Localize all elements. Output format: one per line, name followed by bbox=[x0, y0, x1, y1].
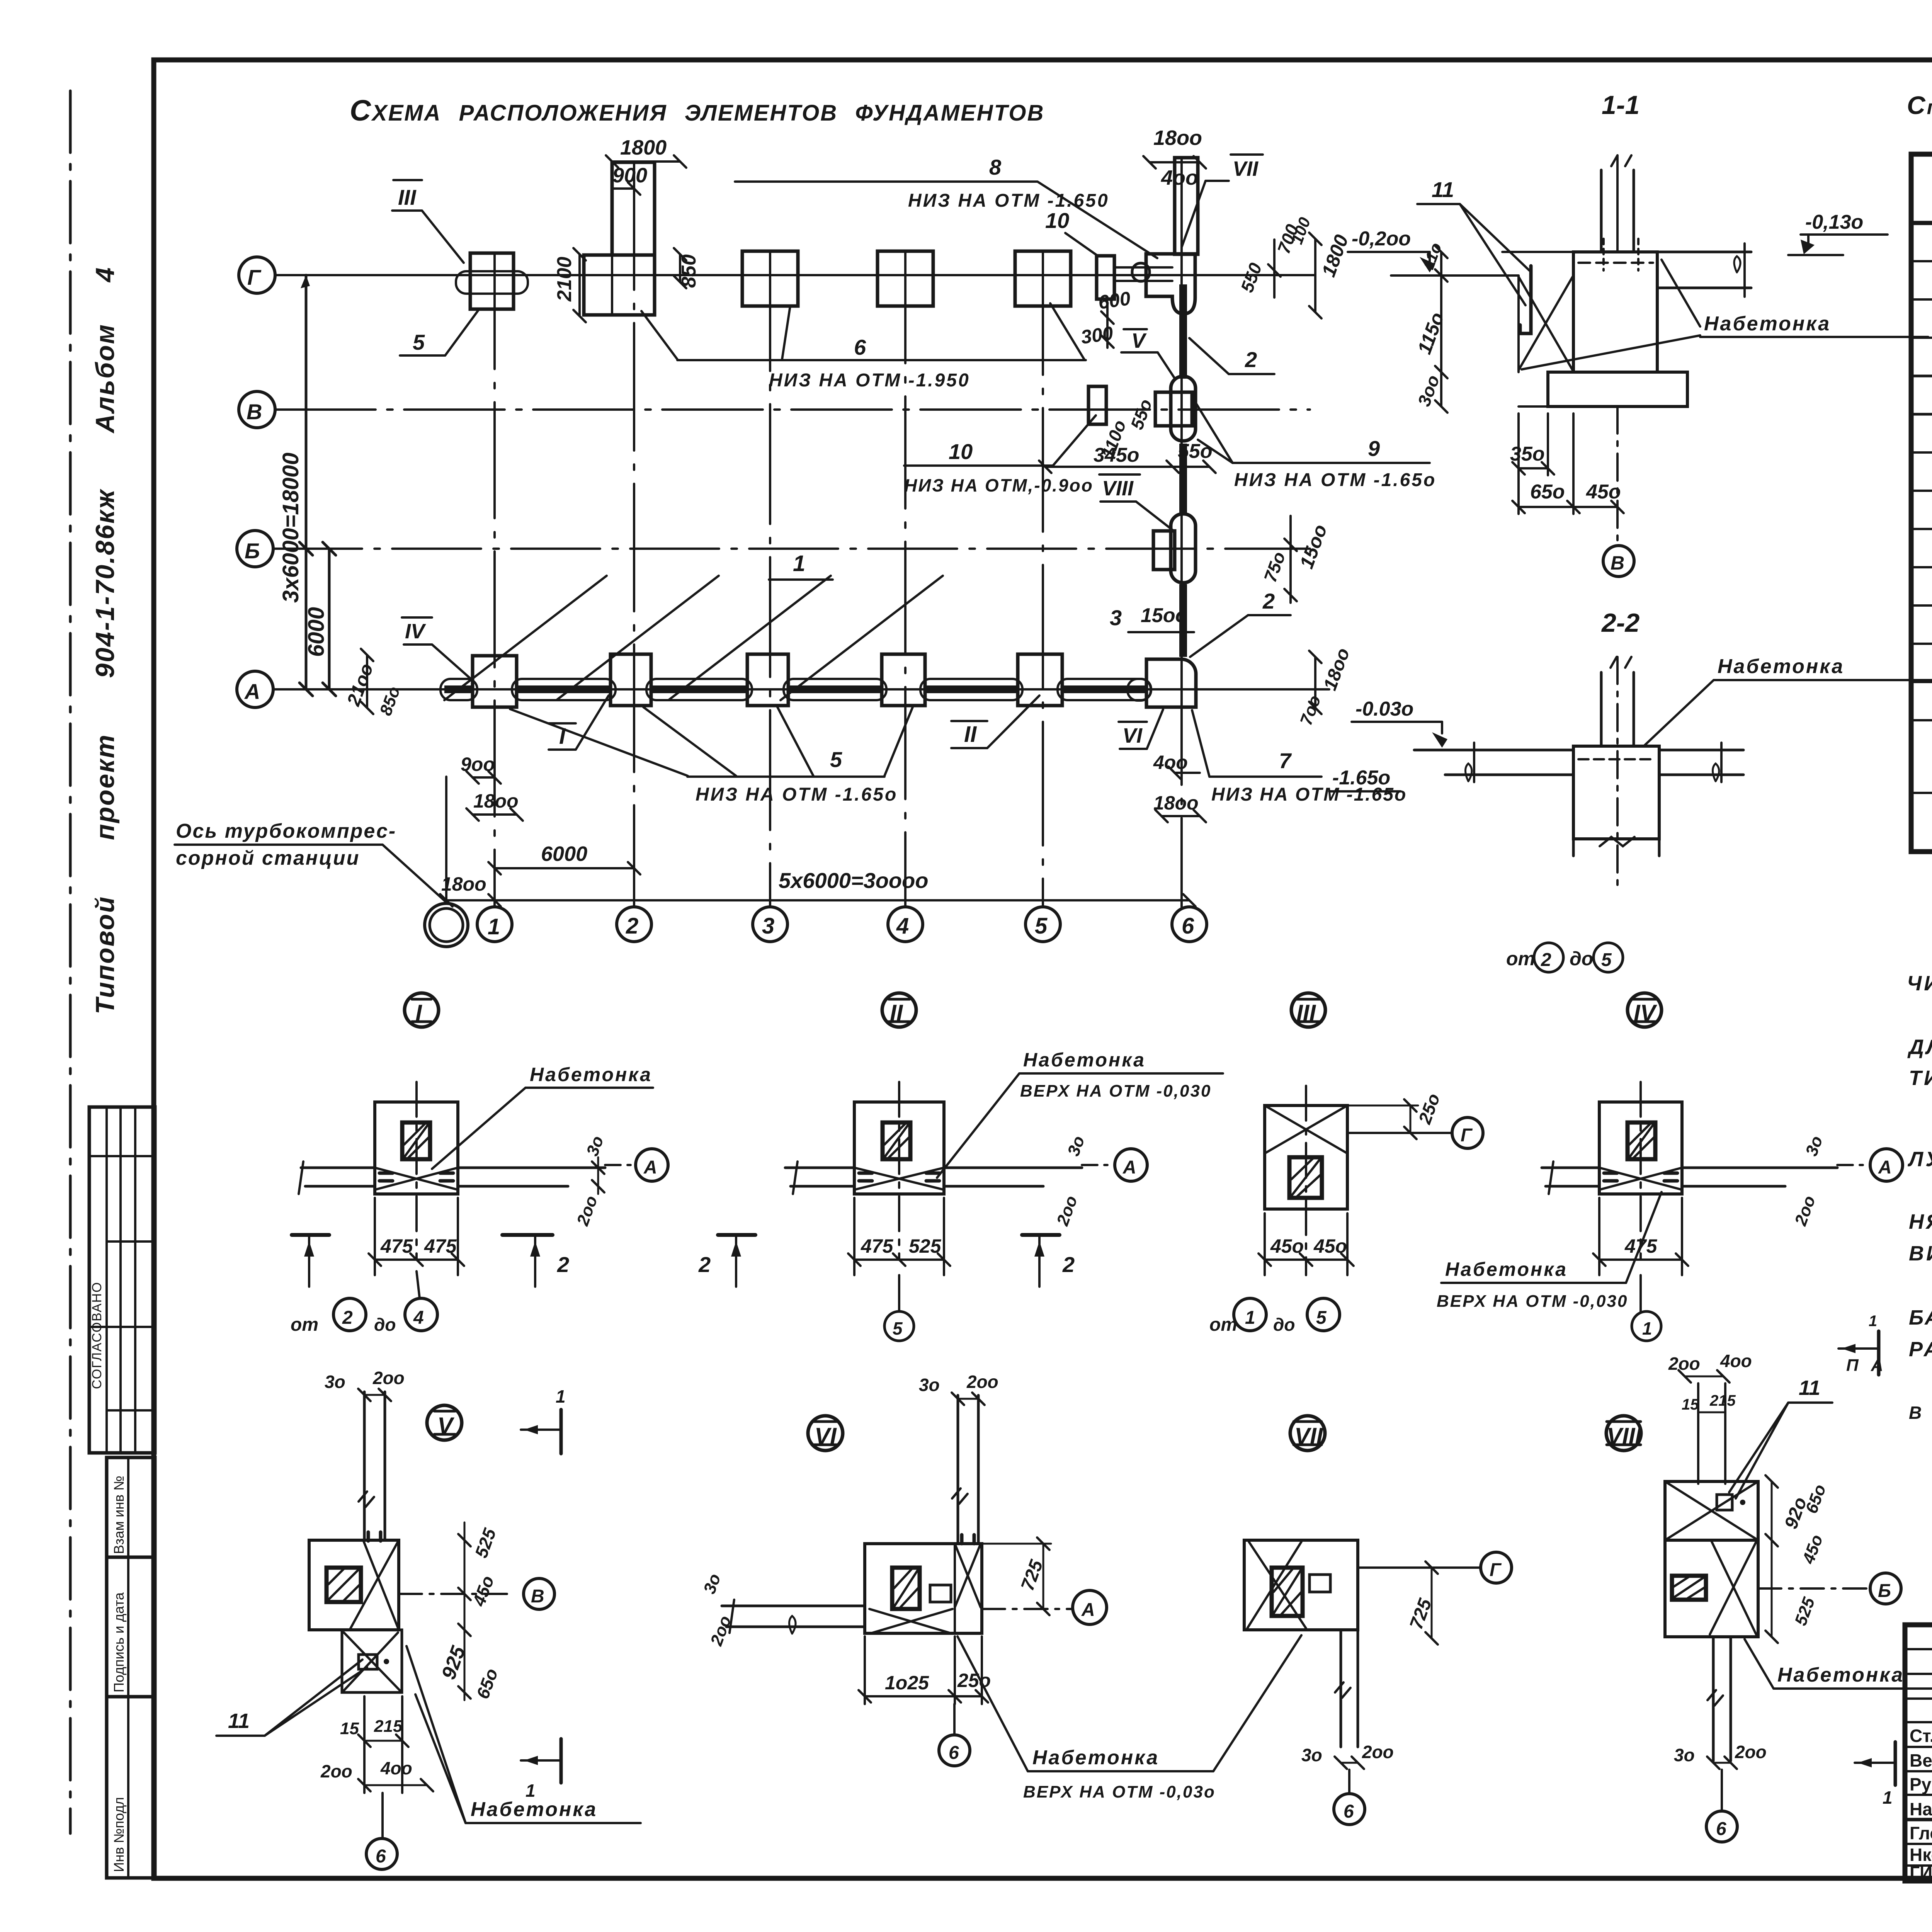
svg-text:НИЗ НА ОТМ -1.950: НИЗ НА ОТМ -1.950 bbox=[769, 370, 970, 391]
dim 6000 bbox=[495, 867, 634, 869]
soglasovano stamp box bbox=[89, 1107, 155, 1453]
detail VII axis Г bbox=[1358, 1566, 1481, 1569]
grid circle 2 bbox=[617, 907, 651, 942]
svg-text:ЧИСТОГО ПОЛА ПЕРВОГО ЭТАЖА МАШ: ЧИСТОГО ПОЛА ПЕРВОГО ЭТАЖА МАШИННОГО ЗАЛ… bbox=[1907, 972, 1932, 995]
svg-text:11: 11 bbox=[228, 1709, 250, 1733]
SECTION22 bbox=[1329, 608, 1932, 972]
svg-text:5: 5 bbox=[1601, 950, 1612, 970]
svg-text:2оо: 2оо bbox=[1053, 1193, 1081, 1228]
dim 2100 850 at A1 bbox=[366, 655, 368, 708]
center line below bbox=[1616, 406, 1619, 546]
grid circle 6 bbox=[1172, 907, 1207, 942]
detail VI square bbox=[865, 1544, 982, 1633]
svg-text:45о: 45о bbox=[1586, 481, 1621, 503]
detail VI dim 725 bbox=[1043, 1544, 1044, 1609]
column 2-2 bbox=[1600, 672, 1603, 746]
axis circle В bbox=[239, 391, 275, 428]
svg-text:6000: 6000 bbox=[304, 607, 329, 657]
svg-text:8: 8 bbox=[989, 155, 1002, 179]
sheet left edge line bbox=[69, 91, 72, 1833]
svg-text:65о: 65о bbox=[473, 1666, 502, 1701]
svg-text:900: 900 bbox=[612, 164, 647, 187]
detail II axis A bbox=[1082, 1164, 1115, 1166]
svg-text:ВЕРХ НА ОТМ -0,030: ВЕРХ НА ОТМ -0,030 bbox=[1020, 1082, 1211, 1100]
detail VI dim 1025 250 bbox=[865, 1695, 982, 1697]
svg-text:Взам инв №: Взам инв № bbox=[111, 1476, 127, 1554]
svg-text:2: 2 bbox=[698, 1252, 711, 1277]
svg-text:525: 525 bbox=[1791, 1595, 1818, 1628]
svg-text:НЯТЬ ПУТЕМ ВТРАМБОВАНИЯ В ГРУН: НЯТЬ ПУТЕМ ВТРАМБОВАНИЯ В ГРУНТ ЩЕБНЯ ИЛ… bbox=[1909, 1210, 1932, 1233]
svg-text:-1.65о: -1.65о bbox=[1332, 767, 1390, 789]
detail VIII section mark 1 bottom bbox=[1894, 1742, 1897, 1785]
axis line А bbox=[273, 688, 1329, 690]
foundation square A1 bbox=[473, 656, 517, 707]
svg-text:А: А bbox=[643, 1157, 657, 1178]
nabetonka X leaders crossing bbox=[1522, 335, 1700, 369]
detail III dim 450 450 bbox=[1265, 1259, 1347, 1261]
svg-text:П А: П А bbox=[1846, 1356, 1887, 1375]
detail V lower block bbox=[342, 1630, 402, 1692]
svg-text:3о: 3о bbox=[1301, 1745, 1322, 1765]
axis line Б dash-dot bbox=[273, 548, 1310, 550]
svg-text:45о: 45о bbox=[1313, 1235, 1347, 1257]
TITLEBLOCK bbox=[1905, 1625, 1932, 1914]
svg-text:75о: 75о bbox=[1260, 549, 1289, 585]
svg-text:10: 10 bbox=[949, 439, 973, 464]
detail VIII circle 6 bbox=[1721, 1770, 1723, 1811]
full row lines bbox=[1911, 375, 1932, 378]
svg-text:5: 5 bbox=[830, 747, 842, 772]
svg-text:3о: 3о bbox=[700, 1571, 724, 1596]
svg-text:2оо: 2оо bbox=[372, 1368, 405, 1388]
svg-text:18оо: 18оо bbox=[1320, 645, 1354, 693]
svg-text:6: 6 bbox=[854, 335, 866, 359]
dim 400 1800 below col6 bbox=[1175, 772, 1200, 774]
svg-text:ВЕРХ НА ОТМ -0,030: ВЕРХ НА ОТМ -0,030 bbox=[1437, 1292, 1628, 1311]
element VIII capsule at Б6 bbox=[1171, 514, 1196, 583]
svg-text:65о: 65о bbox=[1802, 1482, 1830, 1516]
svg-text:18оо: 18оо bbox=[1153, 792, 1199, 814]
svg-text:45о: 45о bbox=[1270, 1235, 1304, 1257]
svg-text:18оо: 18оо bbox=[1153, 126, 1202, 150]
foundation square G1 bbox=[470, 253, 514, 309]
svg-text:2оо: 2оо bbox=[1362, 1742, 1394, 1762]
label 6 niz -1.950 bbox=[677, 359, 1086, 361]
detail VIII circle bbox=[1606, 1416, 1641, 1451]
svg-text:НИЗ НА ОТМ,-0.9оо: НИЗ НА ОТМ,-0.9оо bbox=[904, 475, 1094, 495]
svg-text:15: 15 bbox=[1682, 1396, 1699, 1413]
svg-text:ВИЯ КРУПНОСТЬЮ 40-60ММ.: ВИЯ КРУПНОСТЬЮ 40-60ММ. bbox=[1909, 1242, 1932, 1265]
detail V dims 15 215 bbox=[364, 1740, 402, 1742]
svg-text:215: 215 bbox=[374, 1717, 403, 1736]
svg-text:до: до bbox=[1570, 948, 1593, 969]
svg-text:2: 2 bbox=[1541, 950, 1551, 970]
fan leaders pos1 bbox=[444, 576, 607, 700]
detail IV square bbox=[1599, 1102, 1682, 1194]
left dim line 6000 bbox=[328, 549, 331, 689]
svg-text:5х6000=3оооо: 5х6000=3оооо bbox=[779, 868, 929, 893]
svg-text:4оо: 4оо bbox=[1161, 166, 1198, 189]
PLAN bbox=[175, 94, 1436, 947]
svg-text:3о: 3о bbox=[583, 1133, 607, 1158]
svg-text:ГИП: ГИП bbox=[1910, 1862, 1932, 1883]
dim 2100 850 col2 square bbox=[578, 254, 581, 316]
svg-text:6: 6 bbox=[949, 1743, 959, 1763]
svg-text:2: 2 bbox=[1062, 1252, 1075, 1277]
svg-text:Спецификация к схеме распол: Спецификация к схеме расположения элемен… bbox=[1907, 91, 1932, 119]
dim 1800 col2 bbox=[612, 160, 680, 163]
SPECTABLE bbox=[1907, 91, 1932, 852]
LEFTMARGIN bbox=[89, 266, 155, 1878]
svg-text:2: 2 bbox=[557, 1252, 569, 1277]
svg-text:600: 600 bbox=[1097, 287, 1132, 313]
detail I axis A bbox=[605, 1164, 636, 1166]
column line 6 bbox=[1180, 160, 1183, 907]
svg-text:15: 15 bbox=[340, 1719, 359, 1738]
dim 900 col2 bbox=[612, 187, 634, 190]
column line 5 bbox=[1042, 251, 1044, 907]
svg-text:VII: VII bbox=[1233, 157, 1259, 180]
axis circle Г bbox=[239, 257, 275, 293]
column line 3 bbox=[769, 251, 771, 907]
svg-text:1800: 1800 bbox=[1318, 232, 1353, 280]
svg-text:2: 2 bbox=[1262, 589, 1275, 613]
detail V axis B bbox=[399, 1593, 508, 1595]
svg-text:сорной станции: сорной станции bbox=[176, 847, 360, 869]
svg-text:от: от bbox=[1506, 948, 1535, 969]
svg-text:6: 6 bbox=[376, 1846, 386, 1867]
svg-text:215: 215 bbox=[1709, 1392, 1736, 1409]
X cross left chamber bbox=[1519, 277, 1573, 370]
svg-text:А: А bbox=[1122, 1157, 1136, 1178]
svg-text:до: до bbox=[1273, 1315, 1295, 1335]
detail II dim 475 525 bbox=[854, 1259, 944, 1261]
detail VIII top dims bbox=[1685, 1376, 1723, 1378]
title block outer bbox=[1905, 1625, 1932, 1881]
svg-text:6: 6 bbox=[1344, 1801, 1354, 1822]
beam A4-A5 bbox=[920, 679, 1022, 700]
svg-text:2оо: 2оо bbox=[573, 1193, 601, 1228]
svg-text:Г: Г bbox=[1490, 1560, 1502, 1580]
detail V section mark 1 top bbox=[560, 1410, 563, 1454]
svg-text:ДЛЯ ФУНДАМЕНТОВ ДАНА В ПОЯСНИТ: ДЛЯ ФУНДАМЕНТОВ ДАНА В ПОЯСНИТЕЛЬНОЙ ЗАП… bbox=[1907, 1035, 1932, 1059]
podpis i data box bbox=[107, 1557, 155, 1697]
svg-text:4оо: 4оо bbox=[1720, 1351, 1752, 1371]
detail IV circle bbox=[1628, 993, 1662, 1027]
detail VI beams left bbox=[722, 1605, 865, 1607]
svg-text:1: 1 bbox=[1869, 1313, 1877, 1330]
svg-text:100: 100 bbox=[1287, 215, 1314, 247]
header bottom line bbox=[1911, 221, 1932, 225]
detail V circle 6 bbox=[381, 1793, 384, 1838]
detail V circle bbox=[427, 1405, 462, 1440]
svg-text:11: 11 bbox=[1799, 1376, 1820, 1400]
detail VII beam below bbox=[1340, 1630, 1342, 1747]
detail V beam above bbox=[363, 1392, 366, 1540]
svg-text:1: 1 bbox=[1642, 1318, 1652, 1338]
svg-text:18оо: 18оо bbox=[441, 873, 486, 895]
svg-text:475: 475 bbox=[424, 1235, 457, 1257]
detail I square bbox=[375, 1102, 458, 1194]
detail II circle bbox=[882, 993, 916, 1027]
foundation square G4 bbox=[878, 251, 933, 306]
svg-text:3: 3 bbox=[762, 913, 774, 939]
svg-text:VI: VI bbox=[1122, 724, 1143, 747]
left rows bbox=[1905, 1649, 1932, 1866]
detail V right dims bbox=[464, 1522, 466, 1700]
axis circle B below 1-1 bbox=[1603, 546, 1634, 577]
svg-text:7: 7 bbox=[1279, 748, 1292, 773]
svg-text:5: 5 bbox=[1316, 1308, 1327, 1328]
svg-text:3о: 3о bbox=[919, 1375, 940, 1395]
svg-text:6: 6 bbox=[1716, 1819, 1726, 1839]
beam A1-A2 bbox=[512, 679, 616, 700]
svg-text:Нконтр: Нконтр bbox=[1910, 1845, 1932, 1865]
svg-text:6: 6 bbox=[1182, 913, 1194, 939]
detail I beams bbox=[301, 1167, 375, 1169]
right dim stack at G bbox=[1273, 240, 1276, 298]
svg-text:2100: 2100 bbox=[553, 257, 576, 302]
svg-text:В: В bbox=[247, 400, 262, 424]
svg-text:2оо: 2оо bbox=[707, 1613, 735, 1648]
svg-text:7оо: 7оо bbox=[1296, 693, 1325, 728]
svg-text:НИЗ НА ОТМ -1.65о: НИЗ НА ОТМ -1.65о bbox=[696, 784, 898, 805]
svg-text:VIII: VIII bbox=[1102, 477, 1134, 500]
svg-text:525: 525 bbox=[909, 1235, 942, 1257]
svg-text:55о: 55о bbox=[1178, 440, 1213, 463]
floor and beams 2-2 bbox=[1414, 749, 1573, 752]
detail VI beam above bbox=[957, 1395, 959, 1544]
svg-text:1: 1 bbox=[488, 914, 500, 939]
axis circle А bbox=[237, 671, 273, 707]
foundation square A3 bbox=[747, 654, 788, 706]
svg-text:3о: 3о bbox=[1064, 1133, 1088, 1158]
detail III circle bbox=[1291, 993, 1325, 1027]
axis line В dash-dot bbox=[275, 408, 1310, 411]
svg-text:Г: Г bbox=[1461, 1125, 1473, 1146]
detail V dims 200 400 bbox=[364, 1784, 427, 1786]
svg-text:45о: 45о bbox=[1799, 1532, 1827, 1566]
svg-text:НИЗ НА ОТМ -1.65о: НИЗ НА ОТМ -1.65о bbox=[1234, 470, 1436, 490]
svg-text:1: 1 bbox=[556, 1386, 566, 1406]
svg-text:65о: 65о bbox=[1530, 481, 1565, 503]
right dims at A6 bbox=[1314, 657, 1316, 708]
svg-text:-0,13о: -0,13о bbox=[1805, 211, 1863, 233]
detail II section marks 2 bbox=[718, 1233, 755, 1237]
dim 3450 550 bbox=[1045, 466, 1173, 468]
svg-text:Набетонка: Набетонка bbox=[1718, 655, 1844, 678]
detail VIII beam below bbox=[1712, 1637, 1715, 1761]
left anchor bolt hook bbox=[1520, 266, 1531, 333]
grid circle 3 bbox=[753, 907, 787, 942]
svg-text:475: 475 bbox=[861, 1235, 894, 1257]
partial row lines col1 bbox=[1911, 261, 1932, 793]
detail I circle bbox=[405, 993, 439, 1027]
svg-text:55о: 55о bbox=[1127, 396, 1156, 432]
detail VIII main square bbox=[1665, 1540, 1758, 1637]
svg-text:9: 9 bbox=[1368, 436, 1380, 461]
svg-text:6000: 6000 bbox=[541, 842, 587, 866]
svg-text:3о: 3о bbox=[1674, 1745, 1695, 1765]
svg-text:475: 475 bbox=[380, 1235, 413, 1257]
svg-text:2оо: 2оо bbox=[1668, 1354, 1700, 1374]
detail VII bottom dims bbox=[1341, 1762, 1358, 1764]
beam stub left of A1 bbox=[440, 679, 477, 700]
detail VIII right dims bbox=[1771, 1481, 1773, 1637]
svg-text:5: 5 bbox=[413, 330, 425, 354]
svg-text:1о25: 1о25 bbox=[885, 1672, 929, 1694]
detail VI axis A bbox=[982, 1608, 1073, 1610]
detail VII square bbox=[1244, 1540, 1358, 1630]
svg-text:Начотд: Начотд bbox=[1910, 1799, 1932, 1819]
svg-text:25о: 25о bbox=[1414, 1091, 1444, 1127]
pos10 block on axis В bbox=[1088, 386, 1106, 424]
right beam 1-1 bbox=[1657, 251, 1751, 253]
column line 2 bbox=[633, 162, 635, 907]
corner element VII at G6 bbox=[1146, 254, 1195, 314]
footing 1-1 bbox=[1548, 372, 1687, 406]
detail II circle 5 bbox=[898, 1275, 900, 1311]
svg-text:А: А bbox=[244, 679, 260, 704]
svg-text:300: 300 bbox=[1080, 322, 1115, 348]
column line 4 bbox=[904, 251, 906, 907]
svg-text:А: А bbox=[1081, 1600, 1095, 1620]
svg-text:Подпись и дата: Подпись и дата bbox=[111, 1592, 127, 1692]
svg-text:Набетонка: Набетонка bbox=[530, 1064, 652, 1085]
svg-text:СХЕМА РАСПОЛОЖЕНИЯ ЭЛЕМЕНТОВ Ф: СХЕМА РАСПОЛОЖЕНИЯ ЭЛЕМЕНТОВ ФУНДАМЕНТОВ bbox=[350, 94, 1044, 127]
svg-text:850: 850 bbox=[678, 254, 700, 288]
label 8 niz -1.650 bbox=[735, 180, 1037, 183]
detail II square bbox=[854, 1102, 944, 1194]
svg-text:В: В bbox=[531, 1586, 544, 1607]
corner element VI at A6 bbox=[1146, 659, 1196, 707]
pos10 block on axis Г bbox=[1097, 256, 1114, 299]
foundation square A5 bbox=[1018, 654, 1062, 706]
svg-text:Инв №подл: Инв №подл bbox=[111, 1797, 127, 1872]
detail IV axis A bbox=[1837, 1164, 1870, 1166]
table outer border bbox=[1911, 154, 1932, 852]
svg-text:до: до bbox=[374, 1315, 396, 1335]
detail VIII upper square bbox=[1665, 1481, 1758, 1540]
detail VII circle 6 bbox=[1348, 1770, 1350, 1794]
axis circle Б bbox=[237, 531, 273, 567]
svg-text:Г: Г bbox=[247, 265, 262, 289]
svg-text:2оо: 2оо bbox=[1735, 1742, 1767, 1762]
svg-text:18оо: 18оо bbox=[473, 790, 519, 812]
role names bbox=[1910, 1726, 1932, 1883]
column line 1 bbox=[493, 253, 496, 907]
svg-text:Б: Б bbox=[1878, 1581, 1891, 1601]
foundation square A4 bbox=[882, 654, 925, 706]
element V capsule at B6 bbox=[1171, 376, 1196, 441]
foundation square G2 with pit bbox=[584, 255, 655, 315]
svg-text:550: 550 bbox=[1237, 260, 1266, 295]
svg-text:II: II bbox=[964, 722, 977, 747]
detail I section marks 2 bbox=[292, 1233, 329, 1237]
pit rect col6 bbox=[1175, 158, 1198, 254]
svg-text:Набетонка: Набетонка bbox=[1023, 1049, 1146, 1071]
svg-text:2-2: 2-2 bbox=[1601, 608, 1639, 638]
DETAILS-BOTTOM bbox=[216, 1313, 1932, 1869]
grid circle 1 bbox=[477, 907, 512, 942]
column 1-1 bbox=[1600, 170, 1603, 252]
svg-text:2оо: 2оо bbox=[1791, 1193, 1819, 1228]
DETAILS-TOP bbox=[291, 993, 1903, 1341]
detail I rot dims bbox=[597, 1157, 599, 1194]
svg-text:Набетонка: Набетонка bbox=[1777, 1664, 1904, 1686]
svg-text:-0.03о: -0.03о bbox=[1355, 698, 1413, 720]
grid circle 4 bbox=[888, 907, 923, 942]
pier 2-2 bbox=[1573, 746, 1659, 839]
foundation square G3 bbox=[742, 251, 798, 306]
svg-text:2: 2 bbox=[1245, 347, 1257, 372]
svg-text:Набетонка: Набетонка bbox=[1445, 1259, 1568, 1280]
detail V top dims bbox=[364, 1394, 385, 1396]
detail IV beams bbox=[1542, 1167, 1599, 1169]
detail V section mark 1 bottom bbox=[560, 1739, 563, 1783]
detail II beams bbox=[785, 1167, 854, 1169]
svg-text:IV: IV bbox=[405, 620, 426, 643]
grid circle 5 bbox=[1026, 907, 1060, 942]
detail IV dim 475 bbox=[1599, 1259, 1682, 1261]
left dim line 18000 bbox=[305, 275, 308, 689]
svg-text:от: от bbox=[291, 1315, 318, 1335]
svg-text:4: 4 bbox=[896, 913, 909, 939]
svg-text:15оо: 15оо bbox=[1296, 522, 1332, 571]
NOTES bbox=[1907, 937, 1932, 1423]
dim stack left 1-1 bbox=[1440, 252, 1442, 406]
svg-text:Набетонка: Набетонка bbox=[1704, 313, 1831, 335]
svg-text:345о: 345о bbox=[1094, 444, 1139, 466]
svg-text:3о: 3о bbox=[1802, 1133, 1827, 1158]
svg-text:25о: 25о bbox=[957, 1670, 991, 1691]
svg-text:Ведущ: Ведущ bbox=[1910, 1750, 1932, 1770]
svg-text:10: 10 bbox=[1045, 208, 1069, 233]
svg-text:Набетонка: Набетонка bbox=[471, 1798, 597, 1821]
detail VI circle 6 bbox=[953, 1704, 956, 1735]
svg-text:3: 3 bbox=[1110, 605, 1122, 630]
svg-text:115о: 115о bbox=[1413, 310, 1448, 357]
detail III axis Г bbox=[1347, 1132, 1452, 1134]
svg-text:ЛУБКЕ СЕРИИ 1.412-1/77.: ЛУБКЕ СЕРИИ 1.412-1/77. bbox=[1907, 1148, 1932, 1171]
svg-text:525: 525 bbox=[471, 1525, 500, 1560]
svg-text:1: 1 bbox=[1883, 1787, 1893, 1808]
svg-text:2: 2 bbox=[626, 913, 638, 939]
inv no podl box bbox=[107, 1697, 155, 1878]
detail VIII axis Б bbox=[1758, 1587, 1870, 1590]
axis circle of turbocompressor bbox=[425, 903, 468, 947]
thick beam col6 G-B bbox=[1179, 284, 1187, 379]
svg-text:БАЛОК ВЫПОЛНИТЬ НАБЕТОНКИ ИЗ Б: БАЛОК ВЫПОЛНИТЬ НАБЕТОНКИ ИЗ БЕТОНА КЛАС… bbox=[1909, 1306, 1932, 1329]
svg-text:3х6000=18000: 3х6000=18000 bbox=[278, 452, 303, 603]
dims 1500 750 at VIII bbox=[1289, 516, 1292, 603]
svg-text:5: 5 bbox=[1035, 913, 1048, 939]
svg-text:4оо: 4оо bbox=[380, 1758, 412, 1778]
svg-text:1: 1 bbox=[526, 1781, 536, 1801]
svg-text:2оо: 2оо bbox=[320, 1761, 352, 1781]
beam A2-A3 bbox=[646, 679, 752, 700]
svg-text:ТИПОВОМУ ПРОЕКТУ.: ТИПОВОМУ ПРОЕКТУ. bbox=[1909, 1066, 1932, 1090]
detail III square bbox=[1265, 1105, 1347, 1209]
svg-text:1: 1 bbox=[1245, 1308, 1255, 1328]
detail III dim 250 bbox=[1410, 1105, 1412, 1133]
SECTION11 bbox=[1348, 90, 1928, 577]
svg-text:1: 1 bbox=[793, 551, 805, 576]
foundation square A2 bbox=[611, 654, 651, 706]
pier 1-1 bbox=[1573, 252, 1657, 372]
svg-text:III: III bbox=[398, 185, 417, 209]
svg-text:РАСХОД БЕТОНА РАВЕН 15М³.: РАСХОД БЕТОНА РАВЕН 15М³. bbox=[1909, 1338, 1932, 1361]
